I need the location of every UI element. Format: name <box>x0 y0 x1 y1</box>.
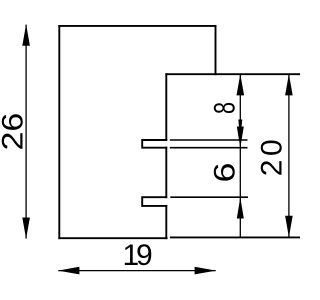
arrowhead up (dim 6 bottom, tip at y=197.2) <box>237 197 244 218</box>
right section outline (20 high) <box>142 74 300 238</box>
tab 2 outline <box>142 197 166 206</box>
wire: groove line at tab1 bottom <box>170 147 248 149</box>
wire: top edge of right section <box>166 73 300 75</box>
main body outline (19 x 26 block) <box>59 26 215 238</box>
arrowhead down (dim 6 top, tip at y=147.8) <box>237 127 244 148</box>
wire: dim line 19 <box>58 270 215 272</box>
wire: right edge of main block (upper part) <box>215 26 217 74</box>
wire: groove line at tab2 top <box>170 196 248 198</box>
wire: bottom edge of main block <box>59 237 166 239</box>
wire: top edge of main block <box>59 25 215 27</box>
wire: dim line 8/6 column <box>239 74 241 237</box>
wire: left edge between tab 1 and tab 2 <box>165 148 167 198</box>
arrowhead down (dim 26 bottom) <box>22 218 30 239</box>
wire: left edge below tab 2 <box>165 206 167 238</box>
arrowhead up (dim 8 top, tip at y=74) <box>237 74 245 95</box>
dimension 26 (left) <box>0 24 30 239</box>
arrowhead down (dim 8 bottom, tip at y=139.8) <box>238 120 242 140</box>
wire: left edge of right section, segment above tab 1 <box>165 74 167 140</box>
svg-text:26: 26 <box>0 113 29 151</box>
svg-text:8: 8 <box>207 102 241 114</box>
arrowhead right (dim 19) <box>195 267 216 275</box>
svg-text:9: 9 <box>136 239 153 272</box>
wire: bottom edge of right section <box>171 236 300 238</box>
svg-text:20: 20 <box>255 136 288 176</box>
wire: dim line 20 <box>288 74 290 237</box>
dimension column 8 / 6 (x=240) <box>207 74 244 237</box>
wire: groove line at tab1 top <box>170 139 248 141</box>
arrowhead left (dim 19) <box>58 267 79 275</box>
svg-text:6: 6 <box>208 162 241 182</box>
dimension 19 (bottom) <box>58 239 216 275</box>
arrowhead down (dim 20 bottom) <box>285 216 293 237</box>
arrowhead up (dim 26 top) <box>22 24 30 45</box>
wire: dim line 26 <box>25 25 27 239</box>
groove lines extending right <box>170 140 248 197</box>
arrowhead up (dim 20 top) <box>285 74 293 95</box>
tab 1 outline <box>142 140 166 148</box>
wire: left edge of main block <box>58 26 60 238</box>
dimension 20 (right) <box>255 74 292 237</box>
